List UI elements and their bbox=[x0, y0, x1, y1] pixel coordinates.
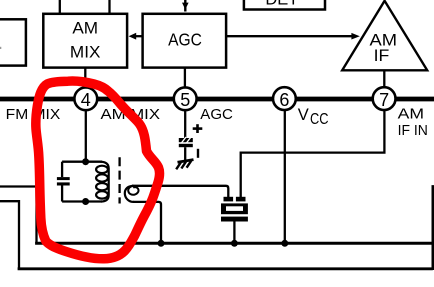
svg-text:4: 4 bbox=[81, 90, 91, 110]
filter CF top plates bbox=[224, 197, 234, 202]
pin 6 bbox=[273, 87, 296, 110]
box AM MIX bbox=[43, 14, 127, 68]
svg-text:DET: DET bbox=[265, 0, 298, 9]
wire B from left edge down to lower bus bbox=[0, 201, 19, 269]
ground bus lower bbox=[18, 267, 433, 270]
wire AM MIX to pin 4 bbox=[84, 68, 86, 88]
wire pin 5 down bbox=[184, 110, 186, 138]
wire filter to ground bus bbox=[233, 222, 235, 244]
wire AGC to pin 5 bbox=[184, 68, 186, 88]
wire secondary bottom down to ground bus bbox=[133, 202, 161, 243]
wire A from left edge down to ground bus bbox=[0, 187, 37, 244]
node secondary-bus junction bbox=[158, 240, 165, 247]
node tank top junction bbox=[82, 158, 89, 165]
box AGC bbox=[143, 14, 227, 68]
capacitor C-electrolytic bottom plate bbox=[179, 144, 193, 147]
pin 7 bbox=[373, 87, 396, 110]
filter CF body bbox=[221, 203, 248, 214]
arrow AGC to AM MIX bbox=[136, 35, 143, 37]
svg-text:IF IN: IF IN bbox=[398, 123, 428, 139]
op-amp U AM IF (triangle amplifier) bbox=[342, 1, 427, 71]
svg-text:AM: AM bbox=[398, 107, 424, 123]
filter CF bottom plate bbox=[221, 217, 248, 222]
svg-text:5: 5 bbox=[180, 90, 190, 110]
wire pin 7 down-left to filter right stub bbox=[241, 110, 385, 197]
IC edge bus (thick horizontal line) bbox=[0, 97, 434, 102]
pin 4 bbox=[74, 87, 97, 110]
wire right edge vertical joining buses bbox=[431, 185, 434, 270]
wire tank bottom rail bbox=[62, 200, 102, 202]
red annotation circle (hand-drawn) bbox=[36, 81, 160, 259]
svg-text:AM: AM bbox=[72, 19, 98, 37]
transformer core (dashed line) bbox=[118, 157, 120, 203]
wire tank top rail bbox=[62, 161, 102, 163]
inductor L secondary winding bbox=[125, 186, 134, 202]
box U-left (partial FM mixer block, cut at left edge) bbox=[0, 19, 26, 65]
wire pin 6 down to ground bus bbox=[284, 110, 286, 243]
svg-text:V: V bbox=[298, 106, 309, 124]
svg-text:6: 6 bbox=[279, 90, 289, 110]
ground bus upper bbox=[35, 242, 433, 245]
capacitor C-tank plates bbox=[57, 177, 70, 180]
ground (chassis) bbox=[176, 160, 193, 170]
node pin6-bus junction bbox=[281, 240, 288, 247]
wire stub top-right into AM MIX bbox=[108, 0, 110, 14]
inductor L primary winding bbox=[100, 162, 109, 202]
svg-text:MIX: MIX bbox=[70, 44, 101, 62]
svg-text:AGC: AGC bbox=[200, 107, 233, 123]
capacitor C-tank top lead bbox=[61, 162, 63, 177]
svg-text:CC: CC bbox=[310, 111, 329, 128]
svg-text:AGC: AGC bbox=[168, 29, 202, 49]
wire secondary top to filter left stub bbox=[132, 186, 228, 197]
minus polarity dash bbox=[197, 149, 199, 158]
node filter-bus junction bbox=[231, 240, 238, 247]
box DET (cut at top edge) bbox=[244, 0, 325, 10]
wire stub top-left into AM MIX bbox=[59, 0, 61, 14]
pin 5 bbox=[174, 87, 197, 110]
wire cap to ground bbox=[184, 147, 186, 160]
wire AGC to AM IF amp with arrow bbox=[226, 35, 352, 37]
capacitor C-electrolytic top plate (hatched) bbox=[179, 137, 193, 144]
text fragment at left edge bbox=[0, 47, 1, 49]
svg-text:7: 7 bbox=[379, 90, 389, 110]
svg-text:IF: IF bbox=[374, 47, 390, 65]
wire AM IF amp to pin 7 bbox=[383, 70, 385, 87]
capacitor C-tank bottom lead bbox=[61, 186, 63, 202]
wire pin 4 down to tank bbox=[85, 110, 87, 162]
arrow into AGC top bbox=[184, 0, 186, 12]
plus polarity mark bbox=[193, 127, 203, 130]
node tank bottom junction bbox=[82, 198, 89, 205]
